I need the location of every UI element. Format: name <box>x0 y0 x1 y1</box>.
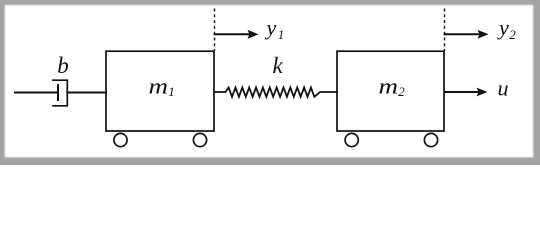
svg-text:m: m <box>149 73 169 98</box>
spring k <box>214 88 337 97</box>
svg-text:2: 2 <box>398 84 405 99</box>
wheel m1 left <box>114 133 127 146</box>
damper b cylinder <box>53 80 67 106</box>
svg-text:1: 1 <box>278 27 285 42</box>
svg-text:y: y <box>265 15 277 40</box>
wheel m2 left <box>345 133 358 146</box>
dashed reference line y2 <box>444 9 446 52</box>
dashed reference line y1 <box>214 9 216 52</box>
arrow y2 shaft <box>445 33 480 35</box>
arrow y1 head <box>248 30 259 39</box>
damper b piston plate <box>57 85 59 100</box>
arrow u shaft <box>445 91 479 93</box>
mass m2 box <box>337 51 444 131</box>
svg-text:u: u <box>498 76 509 101</box>
mass m1 box <box>106 51 214 131</box>
frame border (grey) <box>0 0 540 167</box>
svg-text:b: b <box>57 53 68 78</box>
arrow y2 head <box>478 30 489 39</box>
svg-text:m: m <box>379 73 399 98</box>
wire damper right rod <box>67 92 106 94</box>
svg-text:y: y <box>497 15 509 40</box>
wire damper left rod <box>15 92 58 94</box>
arrow y1 shaft <box>215 33 250 35</box>
wheel m1 right <box>193 133 206 146</box>
svg-text:k: k <box>273 53 284 78</box>
svg-text:1: 1 <box>168 84 175 99</box>
svg-text:2: 2 <box>509 27 516 42</box>
arrow u head <box>477 88 488 97</box>
wheel m2 right <box>424 133 437 146</box>
